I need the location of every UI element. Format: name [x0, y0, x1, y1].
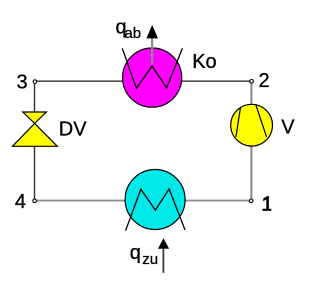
- wire left rail upper (node 3 to valve DV): [34, 84, 36, 112]
- svg-text:zu: zu: [142, 251, 158, 268]
- wire bottom-left (node 4 to evaporator): [37, 200, 126, 202]
- expansion valve DV (two triangles): [13, 112, 58, 146]
- wire bottom-right (evaporator to node 1): [185, 200, 249, 202]
- condenser Ko (heat exchanger circle with zigzag): [122, 48, 182, 107]
- svg-text:3: 3: [17, 72, 28, 94]
- wire right rail upper (node 2 to compressor V): [250, 83, 252, 104]
- svg-text:q: q: [130, 242, 141, 264]
- wire right rail lower (compressor V to node 1): [250, 146, 252, 199]
- heat flow arrow q_zu (upward into evaporator): [158, 238, 169, 272]
- evaporator (heat exchanger circle with zigzag): [125, 170, 185, 231]
- svg-text:V: V: [281, 116, 295, 138]
- label node 1: [263, 196, 272, 211]
- node 3: [33, 80, 37, 84]
- svg-text:Ko: Ko: [192, 51, 216, 73]
- node 1: [249, 199, 253, 203]
- node 2: [250, 80, 254, 84]
- compressor V (circle with trapezoid chords): [231, 104, 273, 146]
- wire top-right (condenser to node 2): [182, 80, 250, 82]
- node 4: [33, 199, 37, 203]
- wire left rail lower (valve DV to node 4): [34, 146, 36, 199]
- svg-text:2: 2: [259, 70, 270, 92]
- svg-text:DV: DV: [59, 119, 87, 141]
- svg-text:4: 4: [15, 191, 26, 213]
- wire top-left (node 3 to condenser): [37, 80, 123, 82]
- svg-text:ab: ab: [124, 25, 141, 42]
- heat flow arrow q_ab (upward out of condenser): [146, 25, 158, 64]
